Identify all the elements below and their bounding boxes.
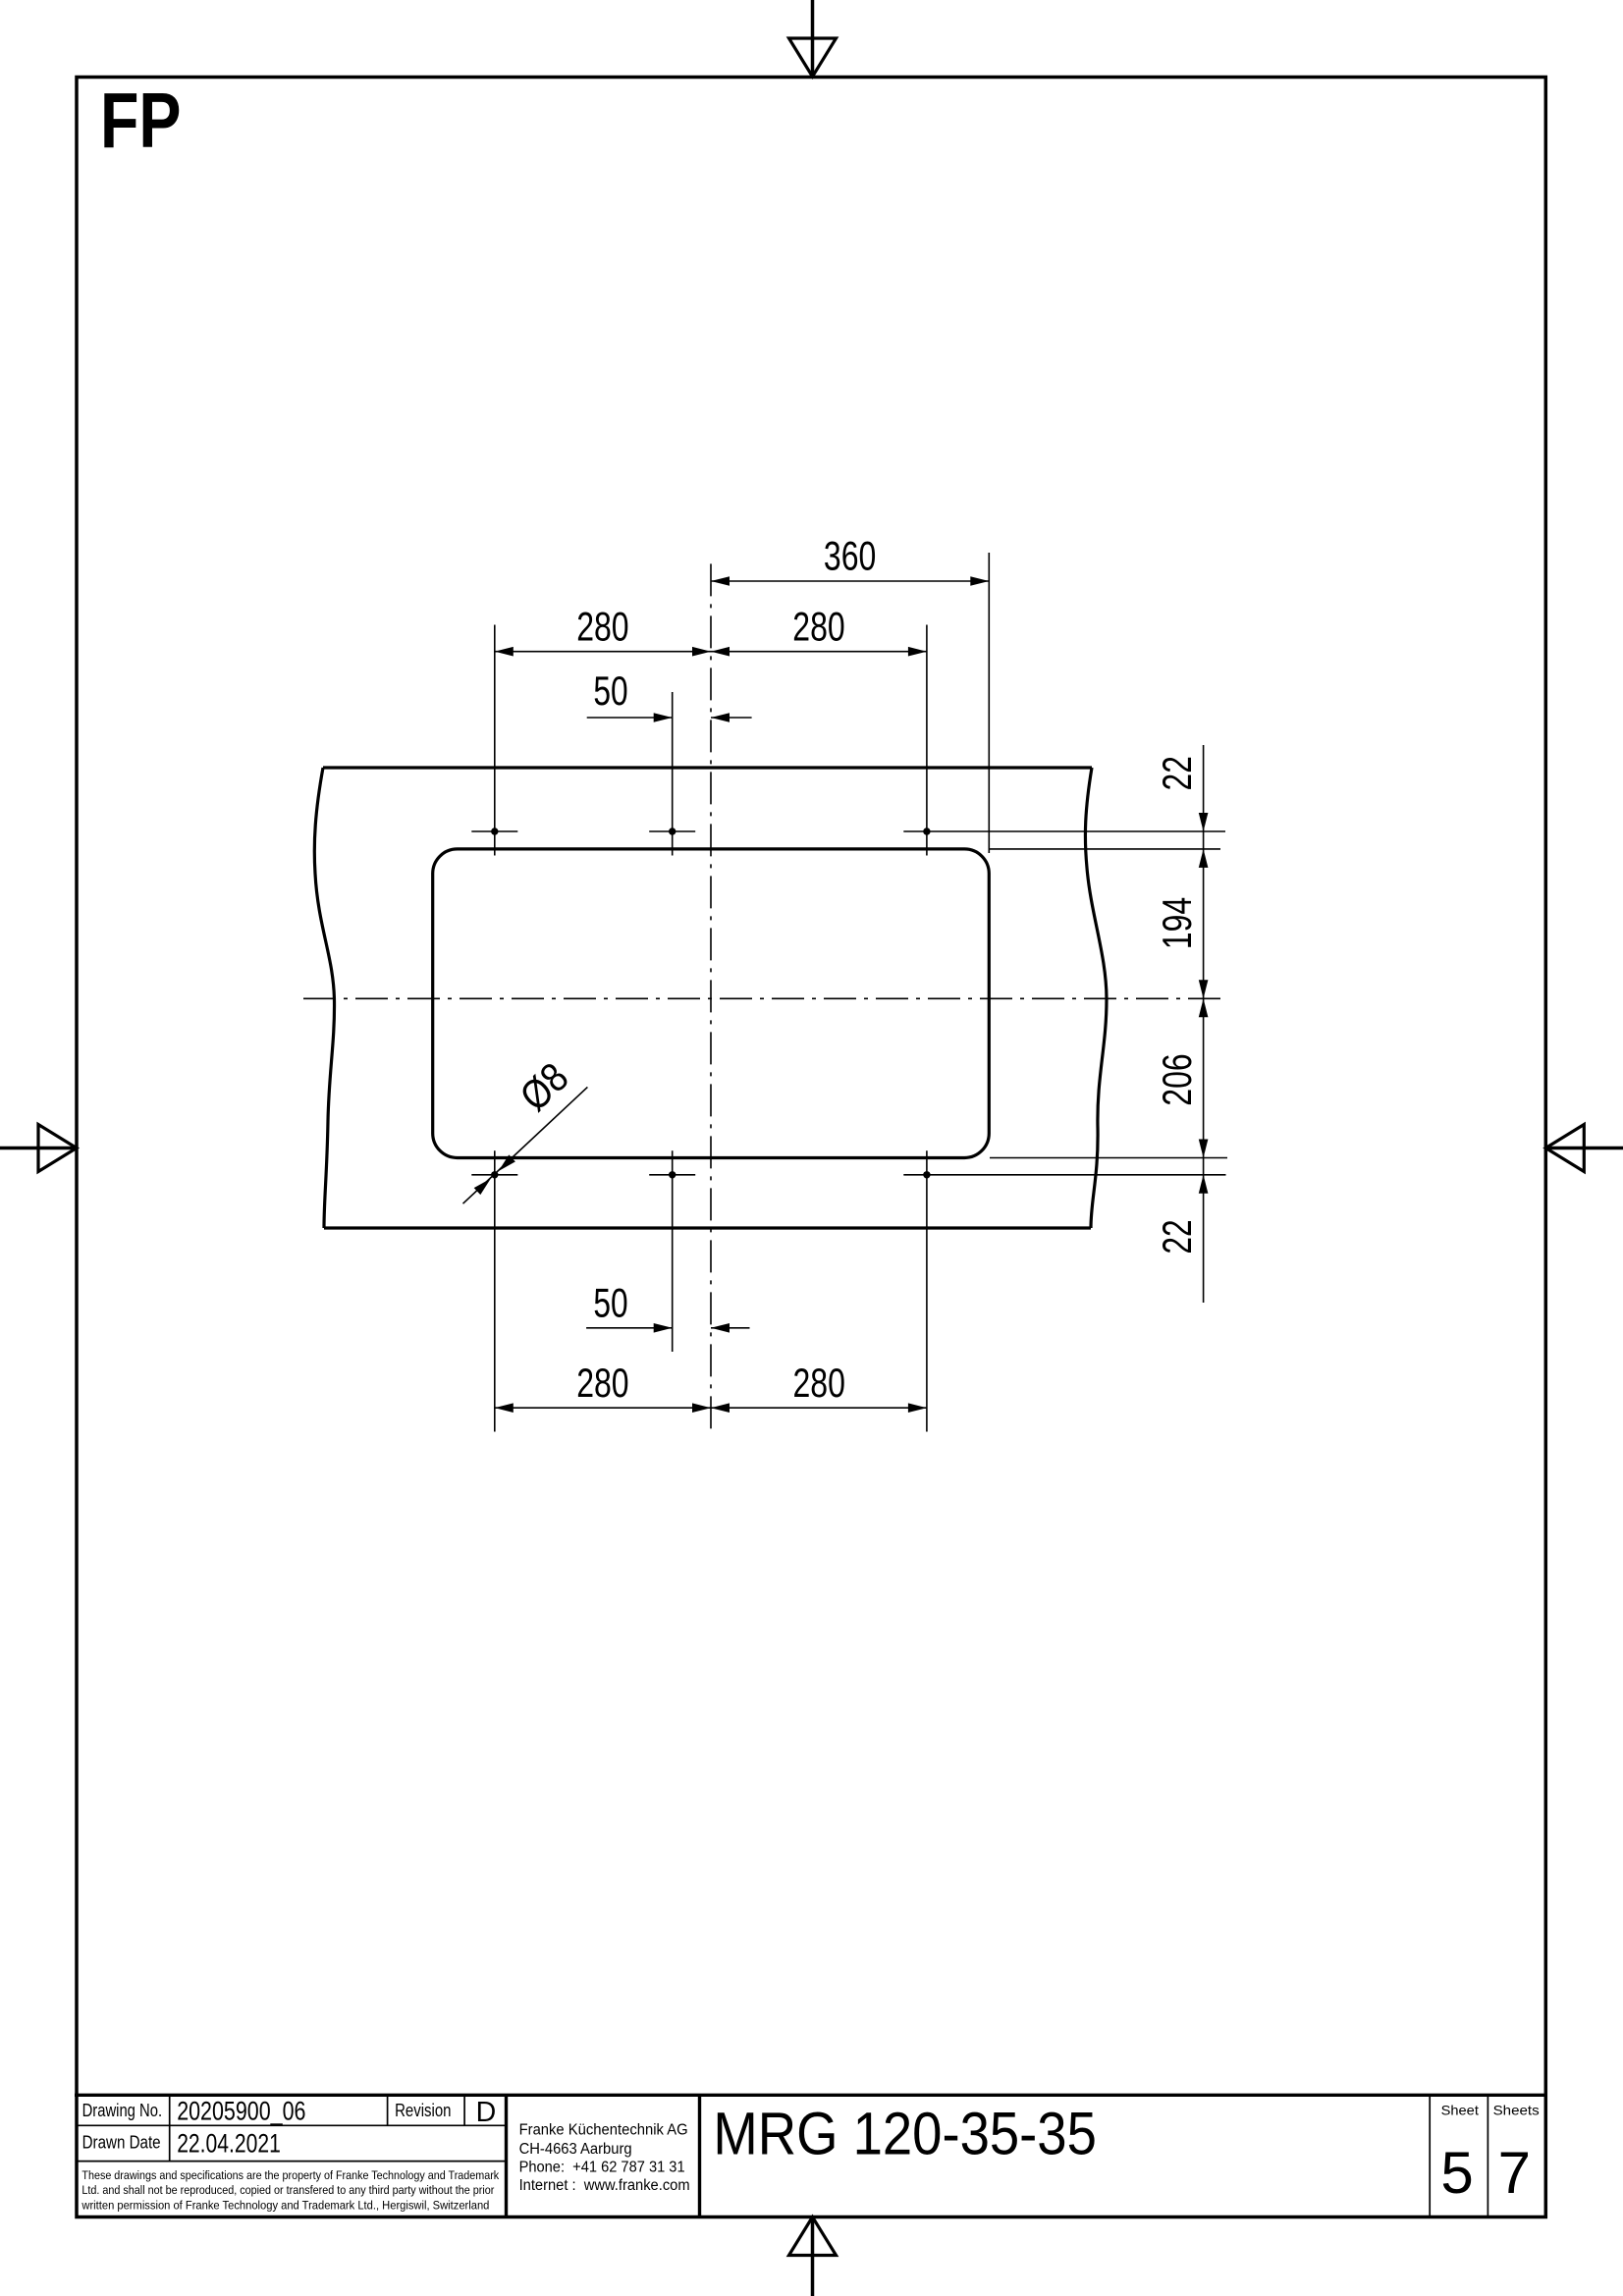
svg-text:FP: FP [100, 77, 182, 164]
svg-text:5: 5 [1440, 2140, 1473, 2206]
svg-text:360: 360 [824, 533, 876, 579]
svg-text:280: 280 [576, 1360, 628, 1406]
svg-text:Phone: +41 62 787 31 31: Phone: +41 62 787 31 31 [519, 2160, 685, 2176]
svg-text:Revision: Revision [395, 2101, 451, 2120]
svg-text:7: 7 [1498, 2140, 1531, 2206]
svg-text:22: 22 [1154, 756, 1200, 790]
svg-text:D: D [476, 2097, 497, 2128]
svg-text:Drawing No.: Drawing No. [82, 2101, 163, 2120]
svg-text:These drawings and specificati: These drawings and specifications are th… [81, 2168, 500, 2182]
svg-text:22.04.2021: 22.04.2021 [177, 2129, 281, 2159]
svg-text:Franke Küchentechnik AG: Franke Küchentechnik AG [519, 2121, 688, 2138]
svg-text:280: 280 [793, 1360, 845, 1406]
svg-text:Internet : www.franke.com: Internet : www.franke.com [519, 2177, 690, 2194]
svg-text:50: 50 [593, 667, 627, 714]
svg-text:206: 206 [1154, 1053, 1200, 1105]
svg-text:Sheets: Sheets [1493, 2103, 1540, 2117]
svg-text:CH-4663 Aarburg: CH-4663 Aarburg [519, 2141, 632, 2158]
svg-text:280: 280 [792, 604, 844, 650]
svg-text:280: 280 [576, 604, 628, 650]
svg-text:MRG 120-35-35: MRG 120-35-35 [713, 2101, 1097, 2168]
svg-text:Sheet: Sheet [1441, 2103, 1479, 2117]
svg-text:50: 50 [593, 1280, 627, 1326]
svg-text:written permission of Franke T: written permission of Franke Technology … [81, 2199, 489, 2213]
svg-text:22: 22 [1154, 1219, 1200, 1254]
svg-text:Drawn Date: Drawn Date [82, 2133, 161, 2153]
svg-text:194: 194 [1154, 897, 1200, 949]
svg-text:20205900_06: 20205900_06 [177, 2096, 305, 2125]
svg-text:Ltd. and shall not be reproduc: Ltd. and shall not be reproduced, copied… [81, 2183, 494, 2197]
